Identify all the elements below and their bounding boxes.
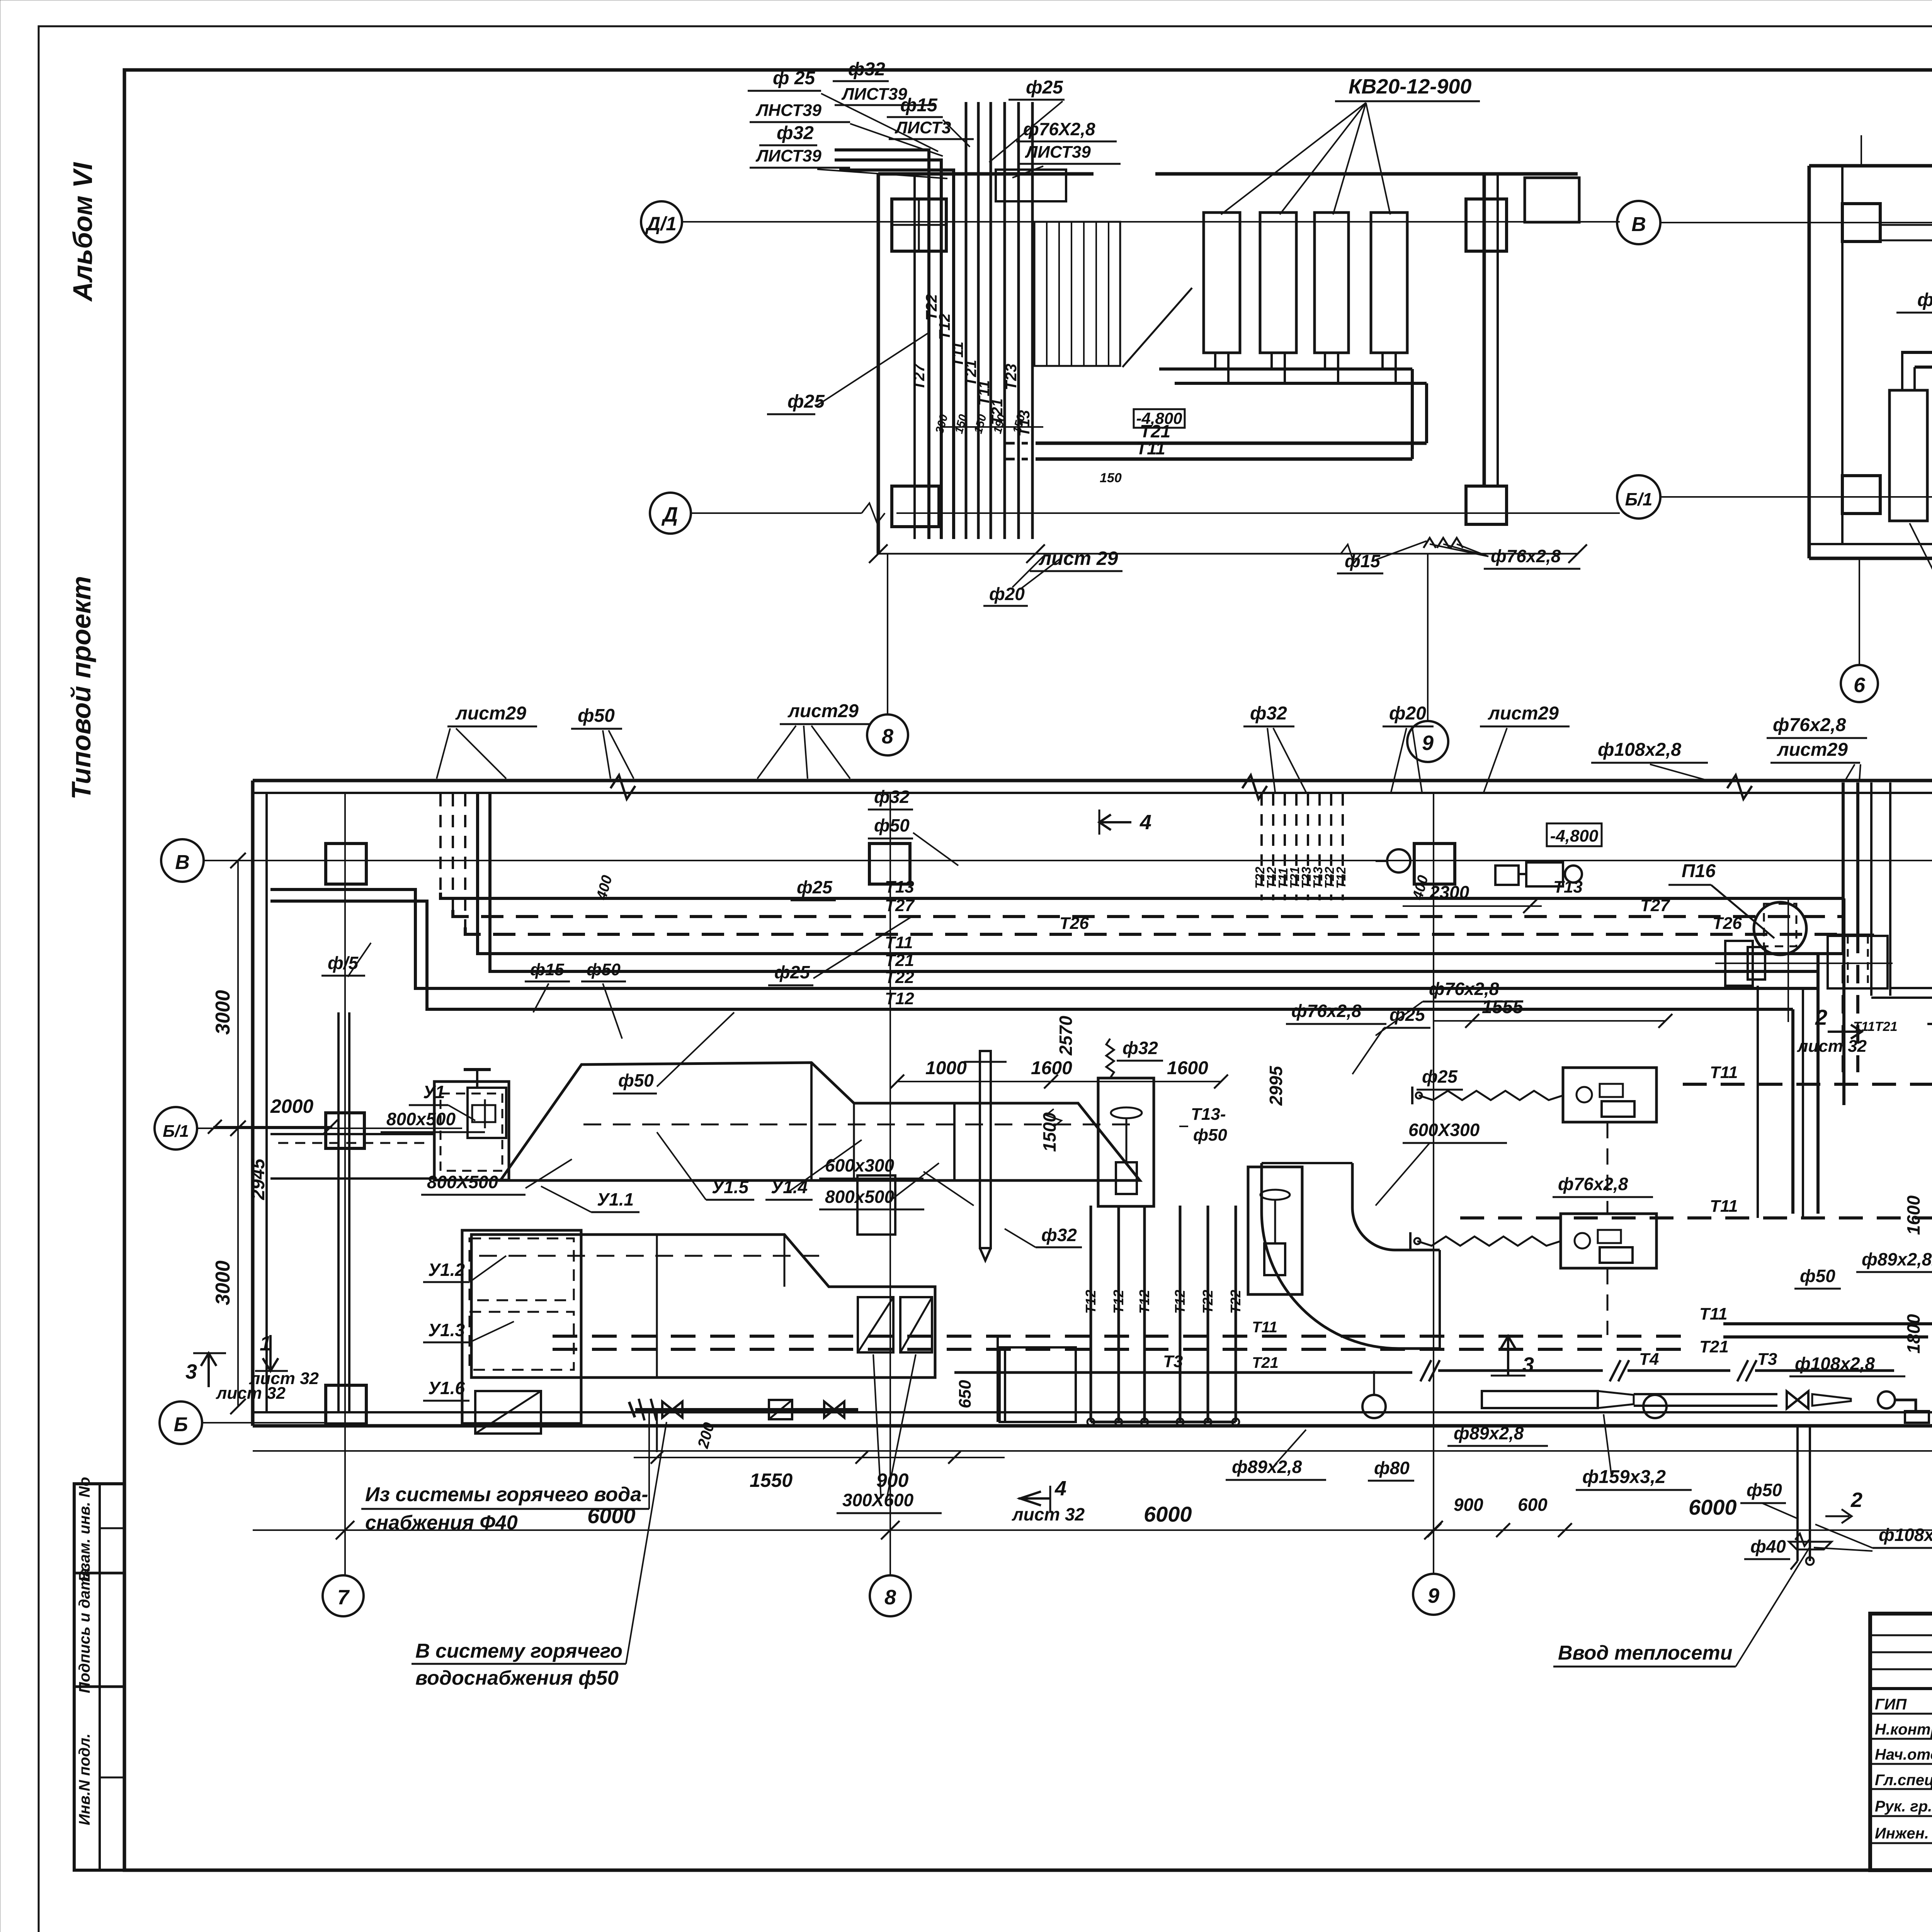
svg-text:2: 2 (1815, 1005, 1827, 1029)
svg-text:В: В (1631, 213, 1646, 236)
svg-text:ф32: ф32 (1122, 1038, 1158, 1058)
wall riser dashed stubs (439, 794, 442, 893)
grid line 8 (889, 793, 891, 1575)
svg-text:Т12: Т12 (1172, 1290, 1188, 1314)
main dimension row 6000 (253, 1529, 1932, 1531)
svg-text:Т12: Т12 (885, 989, 914, 1008)
axis B circle main (160, 1401, 202, 1444)
radiator KV20 no3 (1315, 213, 1349, 353)
svg-text:Т3: Т3 (1757, 1350, 1777, 1369)
axis D line (691, 512, 862, 514)
svg-text:6000: 6000 (587, 1503, 636, 1528)
svg-text:Т12: Т12 (1111, 1290, 1126, 1314)
svg-text:Подпись и дата: Подпись и дата (76, 1568, 93, 1693)
detail1 right wall (1483, 174, 1486, 486)
axis 8 circle (867, 714, 908, 755)
svg-text:650: 650 (956, 1380, 975, 1408)
svg-text:Т3: Т3 (1163, 1352, 1183, 1371)
svg-text:Т22: Т22 (885, 968, 914, 987)
detail2 left wall (1808, 166, 1811, 558)
svg-text:7: 7 (337, 1586, 350, 1609)
pipe T21 band (490, 794, 1818, 971)
detail2 top wall (1809, 164, 1932, 168)
svg-text:Т11Т21: Т11Т21 (1853, 1019, 1898, 1034)
svg-text:Т23: Т23 (1003, 364, 1020, 390)
svg-text:9: 9 (1428, 1584, 1439, 1607)
vertical duct near grid7 (337, 1012, 340, 1412)
svg-text:У1.2: У1.2 (428, 1260, 465, 1280)
riser bundle pipes (835, 150, 929, 539)
svg-text:ф50: ф50 (578, 706, 615, 726)
radiator KV20 no1 (1204, 213, 1240, 353)
axis B/1 circle detail2 (1617, 475, 1660, 519)
svg-text:ф50: ф50 (1747, 1480, 1782, 1500)
svg-text:ф76х2,8: ф76х2,8 (1429, 979, 1499, 999)
T3 T4 pipeline (954, 1371, 1412, 1374)
detail1 left wall (877, 174, 880, 554)
svg-text:ГИП: ГИП (1875, 1696, 1907, 1713)
svg-text:ф50: ф50 (874, 815, 910, 835)
U1 lower duct dashed inner (479, 1255, 819, 1257)
svg-text:ф76х2,8: ф76х2,8 (1291, 1001, 1362, 1021)
svg-text:600х300: 600х300 (825, 1155, 894, 1175)
svg-text:Инжен.: Инжен. (1875, 1825, 1929, 1842)
svg-text:1600: 1600 (1167, 1058, 1208, 1078)
svg-text:ЛИСТ39: ЛИСТ39 (841, 85, 907, 104)
axis V circle detail2 (1617, 201, 1660, 244)
svg-text:ф89х2,8: ф89х2,8 (1454, 1423, 1524, 1443)
svg-text:1000: 1000 (925, 1058, 967, 1078)
svg-text:Т22: Т22 (1200, 1290, 1216, 1314)
svg-text:300Х600: 300Х600 (842, 1490, 914, 1510)
U1 return duct lower (471, 1235, 935, 1378)
axis V circle main (161, 839, 204, 882)
pump circles bottom (1362, 1395, 1386, 1418)
svg-text:800Х500: 800Х500 (427, 1172, 498, 1192)
main water assembly (1482, 1391, 1598, 1408)
svg-text:ф25: ф25 (1389, 1005, 1425, 1025)
svg-text:Т13: Т13 (885, 878, 914, 896)
pipe T11 dashed upper (1683, 1083, 1932, 1086)
svg-text:ф108х2,8: ф108х2,8 (1598, 740, 1681, 760)
radiator KV20 d2 no1 (1889, 390, 1927, 521)
svg-text:4: 4 (1139, 811, 1151, 834)
hot water pipe bottom left (635, 1408, 858, 1411)
svg-text:Т13-: Т13- (1191, 1105, 1226, 1124)
detail1 column at D left (892, 486, 939, 527)
svg-text:Альбом VI: Альбом VI (68, 162, 98, 302)
radiator stubs (1214, 353, 1216, 369)
section mark 3 mid (1507, 1338, 1509, 1376)
sub dimension row (253, 1450, 1932, 1452)
left margin stamp table (74, 1484, 124, 1870)
pipes T11 T21 dashed center (553, 1335, 1681, 1338)
svg-text:ф76х2,8: ф76х2,8 (1491, 546, 1561, 566)
pipe T11 band (478, 794, 1844, 954)
section mark 4 top (1099, 821, 1131, 823)
column grid7 axis B (326, 1385, 366, 1424)
pipe T21 detail1 (1036, 442, 1427, 445)
svg-text:1600: 1600 (1903, 1195, 1923, 1235)
pipe T11 detail1 (1036, 457, 1412, 461)
svg-text:1550: 1550 (750, 1469, 793, 1491)
svg-text:9: 9 (1422, 731, 1434, 755)
heat exchanger column 2 (1248, 1167, 1302, 1294)
svg-text:1555: 1555 (1482, 997, 1524, 1017)
column grid9 axis V (1414, 844, 1455, 884)
svg-text:Т11: Т11 (1252, 1319, 1277, 1336)
detail1 column at D/1 left (892, 199, 946, 251)
svg-text:ф89х2,8: ф89х2,8 (1232, 1457, 1302, 1477)
riser bundle stubs up (965, 102, 968, 143)
svg-text:300: 300 (933, 413, 951, 435)
U1 fan unit box (434, 1082, 509, 1180)
svg-text:Т22: Т22 (1228, 1290, 1243, 1314)
axis B/1 circle main (155, 1107, 197, 1150)
label leaders detail1 (821, 94, 938, 151)
svg-text:3: 3 (1522, 1353, 1534, 1376)
svg-text:Т26: Т26 (1713, 914, 1742, 933)
elbow duct 600x300 (1262, 1163, 1440, 1349)
pipe T11 dashed lower (1460, 1216, 1932, 1219)
svg-text:6000: 6000 (1144, 1502, 1192, 1526)
detail1 column at D right (1466, 486, 1507, 524)
svg-text:Д: Д (662, 503, 678, 526)
section mark 1 list32 left (269, 1335, 272, 1370)
section mark 3 left (207, 1354, 210, 1387)
svg-text:ф159х3,2: ф159х3,2 (1582, 1467, 1666, 1487)
svg-text:Т21: Т21 (1252, 1354, 1279, 1371)
U1 upper duct dashed centerline (583, 1124, 1136, 1126)
svg-text:Т11: Т11 (885, 933, 913, 952)
svg-text:Гл.спец.: Гл.спец. (1875, 1772, 1932, 1789)
dim row 1000 1600 1600 (897, 1081, 1221, 1082)
pipe T27 band (453, 910, 1844, 917)
svg-text:Взам. инв. No: Взам. инв. No (76, 1477, 93, 1582)
svg-text:лист29: лист29 (1777, 740, 1848, 760)
svg-text:У1: У1 (423, 1082, 445, 1102)
svg-text:Т4: Т4 (1639, 1350, 1659, 1369)
svg-text:Инв.N подл.: Инв.N подл. (76, 1733, 93, 1825)
svg-text:Ввод теплосети: Ввод теплосети (1558, 1642, 1733, 1664)
radiator KV20 no2 (1260, 213, 1296, 353)
level mark -4,800 main (1547, 823, 1602, 846)
pipe T12 elbow from wall (270, 901, 1793, 1009)
riser group T12 T22 (1090, 1206, 1092, 1422)
svg-text:лист 32: лист 32 (1797, 1037, 1867, 1056)
svg-text:ф40: ф40 (1750, 1536, 1786, 1556)
thermometer pocket (980, 1051, 991, 1248)
svg-text:Т11: Т11 (1710, 1197, 1738, 1216)
axis 6 circle (1841, 665, 1878, 702)
axis D/1 circle (641, 201, 682, 242)
svg-text:ф50: ф50 (1193, 1126, 1227, 1145)
P16 risers extended (1757, 1119, 1759, 1218)
svg-text:2000: 2000 (270, 1095, 313, 1117)
svg-text:ф32: ф32 (848, 59, 885, 80)
T11T21 list32 duct (1870, 782, 1872, 996)
svg-text:ф32: ф32 (777, 123, 814, 143)
axis 8 circle main (870, 1575, 911, 1616)
svg-text:ф80: ф80 (1374, 1458, 1410, 1478)
svg-text:ф25: ф25 (1422, 1066, 1458, 1087)
svg-text:ф15: ф15 (1917, 290, 1932, 310)
svg-text:У1.1: У1.1 (597, 1189, 634, 1209)
detail1 column at D/1 right (1466, 199, 1507, 251)
stairs block (1034, 222, 1120, 366)
level mark -4,800 detail1 (1134, 409, 1185, 428)
svg-text:КВ20-12-900: КВ20-12-900 (1349, 75, 1471, 98)
column grid7 axis V (326, 844, 366, 884)
section mark 4 bottom (1019, 1497, 1050, 1500)
axis 9 circle (1407, 721, 1448, 762)
svg-text:Типовой проект: Типовой проект (66, 576, 96, 800)
svg-text:Т11: Т11 (1699, 1304, 1728, 1323)
svg-text:ф76х2,8: ф76х2,8 (1773, 715, 1846, 735)
left vertical dim 3000x2 (237, 861, 239, 1406)
svg-text:лист29: лист29 (1488, 703, 1559, 724)
equipment on axis V (1495, 866, 1519, 885)
svg-text:2300: 2300 (1429, 882, 1469, 902)
svg-text:150: 150 (972, 413, 989, 435)
svg-text:водоснабжения ф50: водоснабжения ф50 (415, 1667, 619, 1689)
U1 left stack (462, 1230, 581, 1423)
svg-text:Т27: Т27 (1640, 896, 1670, 915)
svg-text:ф108х2,8: ф108х2,8 (1879, 1525, 1932, 1545)
U1 supply duct upper (500, 1063, 1140, 1180)
title block frame (1870, 1614, 1932, 1870)
grille boxes 300x600 (858, 1297, 893, 1352)
svg-text:ф 25: ф 25 (773, 68, 816, 88)
svg-text:ф89х2,8: ф89х2,8 (1862, 1249, 1932, 1269)
svg-text:Т21: Т21 (885, 951, 914, 970)
svg-text:ф50: ф50 (1800, 1266, 1835, 1286)
svg-text:В систему горячего: В систему горячего (415, 1640, 622, 1662)
svg-text:2570: 2570 (1056, 1015, 1076, 1056)
svg-text:-4,800: -4,800 (1136, 409, 1182, 427)
axis D/1 line (682, 221, 1620, 223)
svg-text:У1.3: У1.3 (428, 1320, 465, 1340)
svg-text:Д/1: Д/1 (645, 213, 677, 235)
svg-text:1: 1 (260, 1332, 271, 1355)
riser pair from T11T21 (997, 1336, 999, 1422)
duct bar left (1880, 225, 1932, 240)
svg-text:Т11: Т11 (1710, 1063, 1738, 1082)
heat exchanger column right (1098, 1078, 1154, 1206)
svg-text:ф25: ф25 (797, 877, 833, 897)
title block row lines left part (1870, 1634, 1932, 1636)
detail2 axis stubs (1861, 135, 1862, 166)
U1 inlet duct from wall (270, 1133, 434, 1135)
risers under wall right (1796, 1426, 1799, 1561)
svg-text:П16: П16 (1682, 861, 1716, 881)
svg-text:Т27: Т27 (885, 896, 915, 915)
main bottom wall (253, 1411, 1932, 1413)
P16 fan unit (1754, 902, 1806, 955)
detail1 pier right (1525, 178, 1579, 222)
svg-text:ф32: ф32 (1041, 1225, 1077, 1245)
axis D circle (650, 493, 691, 534)
svg-text:снабжения Ф40: снабжения Ф40 (365, 1512, 518, 1534)
pipe T22 elbow from wall (270, 889, 1818, 988)
svg-text:8: 8 (884, 1586, 896, 1609)
svg-text:ЛИСТ39: ЛИСТ39 (755, 146, 821, 165)
svg-text:В: В (175, 851, 190, 874)
detail1 wall niche (996, 170, 1066, 201)
svg-text:ф25: ф25 (1026, 77, 1063, 98)
svg-text:4: 4 (1054, 1477, 1066, 1500)
svg-text:ф32: ф32 (874, 787, 910, 807)
pump circle on axis V (1387, 849, 1410, 872)
svg-text:ф50: ф50 (587, 960, 621, 979)
svg-text:ф15: ф15 (900, 95, 938, 116)
svg-text:ф15: ф15 (1345, 551, 1381, 571)
detail2 column B1 left (1842, 476, 1880, 514)
svg-text:Т27: Т27 (911, 363, 928, 390)
svg-text:У1.6: У1.6 (428, 1378, 465, 1398)
band right vertical drops (1842, 898, 1845, 1105)
svg-text:ф25: ф25 (787, 391, 825, 412)
svg-text:Т12: Т12 (936, 313, 953, 340)
svg-text:1800: 1800 (1903, 1314, 1923, 1354)
svg-text:Н.контр.: Н.контр. (1875, 1721, 1932, 1738)
drop bundle dashed (1260, 794, 1263, 900)
axis 7 circle main (323, 1575, 364, 1616)
svg-text:3: 3 (185, 1360, 197, 1383)
svg-text:2945: 2945 (248, 1158, 269, 1200)
svg-text:Т26: Т26 (1060, 914, 1089, 933)
svg-text:6000: 6000 (1689, 1495, 1737, 1519)
svg-text:Рук. гр.: Рук. гр. (1875, 1798, 1932, 1815)
svg-text:1600: 1600 (1031, 1058, 1072, 1078)
grid line 7 (344, 793, 346, 1575)
bottom chain dim (634, 1457, 1005, 1458)
svg-text:6: 6 (1854, 673, 1866, 697)
svg-text:Нач.отд.: Нач.отд. (1875, 1746, 1932, 1763)
svg-text:Т12: Т12 (1136, 1290, 1152, 1314)
svg-text:ф15: ф15 (530, 960, 564, 979)
svg-text:У1.4: У1.4 (771, 1177, 808, 1197)
svg-text:Т11: Т11 (1136, 438, 1165, 458)
svg-text:ф50: ф50 (618, 1070, 654, 1090)
svg-text:600: 600 (1518, 1495, 1548, 1515)
svg-text:У1.5: У1.5 (712, 1177, 749, 1197)
svg-text:ф20: ф20 (989, 584, 1025, 604)
svg-text:ф20: ф20 (1389, 703, 1426, 724)
svg-text:Т12: Т12 (1083, 1290, 1099, 1314)
grid line 9 (1433, 793, 1434, 1574)
svg-text:лист 32: лист 32 (1012, 1504, 1085, 1524)
svg-text:900: 900 (1454, 1495, 1483, 1515)
radiator manifold pipes (1159, 367, 1412, 371)
axis 9 circle main (1413, 1574, 1454, 1615)
svg-text:ф32: ф32 (1250, 703, 1287, 724)
detail2 column V left (1842, 204, 1880, 241)
svg-text:Из системы горячего вода-: Из системы горячего вода- (365, 1483, 648, 1506)
svg-text:Б: Б (174, 1413, 188, 1436)
svg-text:ф/5: ф/5 (328, 953, 359, 973)
detail1 dim ticks row (943, 426, 1043, 428)
svg-text:800х500: 800х500 (825, 1187, 894, 1207)
svg-text:лист29: лист29 (787, 701, 859, 721)
heat unit centerlines (1607, 1122, 1609, 1214)
main left wall (251, 781, 255, 1426)
svg-text:Б/1: Б/1 (1625, 489, 1653, 509)
svg-text:лист29: лист29 (455, 703, 526, 724)
detail2 bottom wall (1809, 543, 1932, 545)
main top wall (253, 779, 1932, 782)
svg-text:ф25: ф25 (774, 962, 810, 982)
radiator KV20 no4 (1371, 213, 1407, 353)
f76 risers (1842, 782, 1845, 935)
svg-text:ЛНСТ39: ЛНСТ39 (755, 101, 821, 120)
column grid7 axis B1 (326, 1113, 364, 1148)
svg-text:Б/1: Б/1 (163, 1122, 189, 1141)
duct neck (857, 1175, 895, 1235)
svg-text:3000: 3000 (212, 1260, 234, 1305)
column grid8 axis V (869, 844, 910, 884)
svg-text:3000: 3000 (212, 990, 234, 1035)
svg-text:лист 32: лист 32 (216, 1384, 286, 1403)
pipes T11 T21 heatpoint right (1723, 1322, 1932, 1325)
svg-text:2995: 2995 (1266, 1065, 1286, 1106)
svg-text:ф76х2,8: ф76х2,8 (1558, 1174, 1628, 1194)
svg-text:2: 2 (1850, 1488, 1862, 1512)
detail2 manifold (1901, 351, 1932, 354)
svg-text:Т21: Т21 (1699, 1337, 1729, 1356)
svg-text:-4,800: -4,800 (1550, 827, 1599, 845)
svg-text:Т12: Т12 (1334, 866, 1348, 889)
svg-text:ф76Х2,8: ф76Х2,8 (1023, 119, 1095, 139)
svg-text:ЛИСТ39: ЛИСТ39 (1025, 143, 1091, 162)
svg-text:800х500: 800х500 (386, 1109, 456, 1129)
svg-text:8: 8 (882, 725, 893, 748)
heat unit 2 (1561, 1214, 1656, 1268)
detail1 dimension line bottom (878, 553, 1578, 555)
svg-text:900: 900 (876, 1469, 909, 1491)
svg-text:150: 150 (1100, 471, 1122, 485)
pipe T13 band (440, 893, 1844, 898)
pipe T26 band (465, 927, 1844, 934)
detail1 top wall (878, 172, 1094, 176)
svg-text:600Х300: 600Х300 (1408, 1120, 1480, 1140)
heat unit 1 (1563, 1068, 1656, 1122)
